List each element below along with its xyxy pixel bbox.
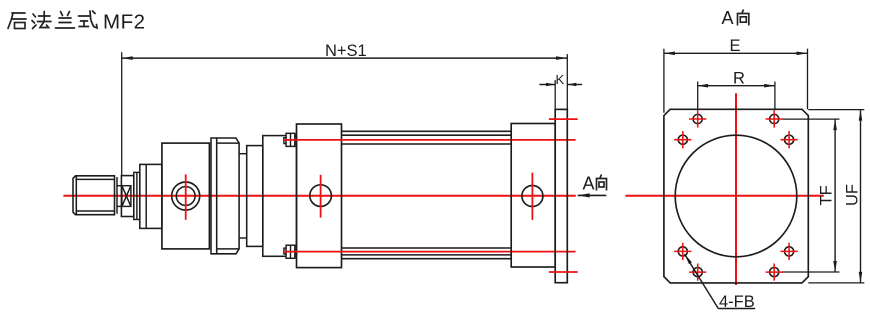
svg-text:E: E — [730, 37, 741, 55]
N+S1 dimension extension left — [121, 52, 123, 175]
tie rod hole top-left — [674, 131, 691, 148]
svg-text:A: A — [722, 8, 734, 28]
head port outer circle — [172, 182, 200, 210]
gland step G5 — [140, 164, 162, 228]
rear port circle E — [522, 186, 543, 207]
neck between B and C — [239, 154, 247, 238]
tie rod nut bottom-left — [286, 245, 295, 258]
spacer block C — [247, 146, 263, 247]
cylinder bore circle — [675, 135, 797, 257]
tie rod red centerline bottom — [284, 251, 576, 253]
head port red crosshair — [185, 174, 187, 220]
TF dimension line — [834, 119, 836, 272]
svg-text:A: A — [583, 174, 595, 194]
R dimension extension lines — [697, 82, 699, 111]
svg-text:TF: TF — [818, 185, 836, 205]
glyph 兰 — [56, 12, 75, 29]
rear flange side view — [555, 109, 567, 282]
title 后法兰式 MF2 — [8, 11, 97, 29]
glyph 式 — [79, 11, 98, 28]
E dimension extension lines — [663, 49, 665, 113]
4-FB leader line — [685, 254, 756, 309]
A direction arrow (side view) — [578, 194, 607, 196]
svg-text:N+S1: N+S1 — [325, 42, 367, 60]
svg-text:MF2: MF2 — [103, 11, 146, 34]
front head block — [162, 143, 210, 249]
svg-text:R: R — [733, 70, 745, 88]
tie rod hole top-right — [781, 131, 798, 148]
rear cap block E — [511, 124, 555, 268]
glyph 向 top — [738, 10, 749, 26]
gland step G2 inner line — [136, 172, 138, 219]
svg-text:K: K — [556, 72, 565, 87]
bolt hole top-right — [766, 110, 783, 127]
cushion red crosshair D — [320, 175, 322, 218]
tie rod hole bottom-left — [674, 243, 691, 260]
spacer block B — [211, 138, 239, 254]
front view red horizontal centerline — [625, 195, 824, 197]
glyph 法 — [32, 12, 51, 29]
TF dimension extension lines — [783, 118, 840, 120]
N+S1 dimension line — [122, 57, 567, 59]
tie rod nut top-left — [286, 133, 295, 146]
UF dimension line — [860, 110, 862, 283]
R dimension line — [697, 85, 775, 87]
flange bolt row red line bottom — [549, 271, 578, 273]
flange bolt row red line top — [549, 118, 578, 120]
head port inner circle — [176, 187, 195, 206]
rod lock nut G1 — [121, 176, 133, 217]
rod stub — [117, 186, 122, 207]
spacer block C2 — [263, 136, 297, 257]
glyph 后 — [8, 13, 26, 29]
front view red vertical centerline — [735, 93, 737, 285]
tie rod nut bottom-left stub — [284, 248, 286, 254]
bolt hole top-left — [689, 110, 706, 127]
glyph 向 side — [597, 175, 607, 191]
rod thread end — [73, 176, 117, 215]
left cap block D — [297, 124, 342, 268]
tie rod red centerline top — [284, 139, 576, 141]
bolt hole bottom-right — [766, 264, 783, 281]
UF dimension extension lines — [808, 109, 864, 111]
tie rod nut top-left stub — [284, 138, 286, 144]
tie rod hole bottom-right — [781, 243, 798, 260]
rear port red crosshair E — [531, 173, 533, 220]
svg-text:4-FB: 4-FB — [719, 293, 755, 311]
main red centerline — [63, 195, 575, 197]
bolt hole bottom-left — [689, 264, 706, 281]
gland step G2 — [134, 172, 140, 219]
K dimension — [539, 84, 582, 86]
E dimension line — [664, 52, 808, 54]
cushion screw circle D — [310, 185, 332, 207]
X thread symbol block — [122, 186, 131, 207]
K dimension extension line right / N+S1 right extension — [566, 54, 568, 109]
svg-text:UF: UF — [844, 184, 862, 206]
gland step G5 inner line — [145, 164, 147, 228]
barrel and tie rod lines — [342, 131, 512, 258]
K dimension extension line left — [554, 80, 556, 109]
flange plate outline — [664, 109, 808, 283]
